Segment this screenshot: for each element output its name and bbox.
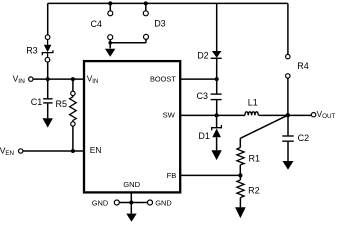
- svg-text:VEN: VEN: [0, 146, 14, 157]
- resistor R2: [237, 175, 244, 207]
- ground C1: [43, 118, 53, 127]
- node VOUT: [286, 113, 290, 117]
- capacitor C1: [43, 79, 53, 118]
- svg-text:FB: FB: [167, 171, 177, 180]
- capacitor C3: [211, 79, 222, 115]
- terminal VOUT: [311, 113, 315, 117]
- svg-text:BOOST: BOOST: [150, 74, 176, 83]
- wire VIN line: [33, 78, 83, 80]
- svg-text:R3: R3: [26, 45, 38, 55]
- inductor L1: [245, 112, 258, 116]
- resistor R1: [237, 138, 244, 175]
- terminal VEN input: [19, 149, 23, 153]
- ground C2: [283, 161, 294, 170]
- resistor R4 (optional terminals): [286, 54, 290, 115]
- svg-text:SW: SW: [163, 111, 176, 120]
- svg-text:R2: R2: [248, 186, 260, 196]
- terminal GND right: [148, 200, 153, 205]
- wire VOUT to R1 diagonal: [240, 115, 287, 138]
- svg-text:R4: R4: [297, 61, 309, 71]
- terminal pair lower (C4/D3 returns): [108, 34, 149, 42]
- wire SW line: [181, 114, 245, 116]
- terminal VIN input: [29, 77, 33, 81]
- ground R2: [235, 207, 246, 218]
- svg-text:C4: C4: [91, 19, 103, 29]
- svg-text:VOUT: VOUT: [317, 110, 336, 120]
- wire GND pin stub: [130, 193, 132, 202]
- junction VIN/R5: [71, 77, 75, 81]
- junction SW/C3/D1: [215, 113, 219, 117]
- svg-text:GND: GND: [92, 199, 108, 208]
- junction VIN/R3: [46, 77, 50, 81]
- wire EN line: [23, 150, 83, 152]
- resistor R3 (zener symbol with terminals): [42, 35, 53, 62]
- terminal GND left: [114, 200, 119, 205]
- svg-text:VIN: VIN: [13, 74, 26, 85]
- svg-text:L1: L1: [248, 97, 258, 107]
- svg-text:C2: C2: [298, 133, 310, 143]
- svg-text:R5: R5: [56, 99, 68, 109]
- wire L1 to VOUT: [259, 114, 312, 116]
- wire R4 branch: [287, 3, 289, 54]
- terminal C4 (optional): [108, 1, 113, 15]
- capacitor C2: [282, 115, 293, 161]
- junction ground stub: [108, 41, 112, 45]
- ground C4/D3: [105, 43, 115, 57]
- junction FB/R1/R2: [238, 173, 242, 177]
- diode D2: [211, 51, 222, 79]
- svg-text:VIN: VIN: [87, 74, 99, 85]
- wire GND cross: [119, 202, 147, 204]
- svg-text:C1: C1: [31, 97, 43, 107]
- junction EN/R5: [71, 149, 75, 153]
- svg-text:EN: EN: [90, 145, 102, 155]
- svg-text:GND: GND: [155, 199, 171, 208]
- op-amp U1 regulator body: [84, 61, 180, 192]
- wire top rail: [48, 2, 288, 4]
- wire FB: [181, 174, 240, 176]
- terminal D3 (optional): [143, 1, 148, 15]
- svg-text:GND: GND: [123, 180, 140, 189]
- ground GND pin: [126, 203, 136, 222]
- diode D1 (zener): [212, 115, 222, 150]
- junction GND: [129, 201, 133, 205]
- wire R3 branch lower: [47, 62, 49, 79]
- wire D2 branch: [216, 3, 218, 51]
- wire BOOST: [181, 78, 217, 80]
- svg-text:D3: D3: [154, 19, 166, 29]
- ground D1: [211, 150, 221, 160]
- svg-text:D2: D2: [197, 50, 209, 60]
- junction BOOST/D2/C3: [215, 77, 219, 81]
- svg-text:C3: C3: [197, 91, 209, 101]
- resistor R5: [70, 79, 77, 151]
- wire R3 branch upper: [47, 3, 49, 35]
- svg-text:D1: D1: [198, 131, 210, 141]
- svg-text:R1: R1: [249, 153, 261, 163]
